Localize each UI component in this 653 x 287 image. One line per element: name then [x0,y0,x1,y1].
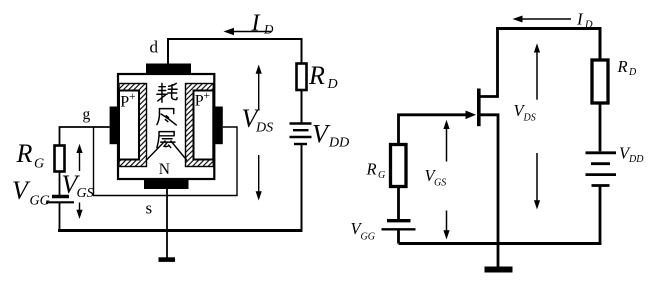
P+ label left [120,91,135,111]
svg-text:P: P [195,93,204,110]
text 尽 (depletion layer char 2) [157,109,176,125]
resistor R_D (left circuit) [297,61,338,92]
depletion boundary diagonal left [146,141,166,161]
svg-text:R: R [617,57,628,76]
svg-text:GG: GG [361,232,375,243]
JFET Q1 drain lead [479,29,498,97]
svg-text:D: D [584,20,593,31]
resistor R_D (right circuit) [592,57,637,103]
svg-text:I: I [251,11,261,37]
svg-text:R: R [308,61,325,90]
svg-text:+: + [204,90,211,102]
battery V_GG (left circuit) [12,176,74,232]
svg-text:GS: GS [434,178,446,189]
JFET Q1 gate lead with arrow [399,111,477,145]
svg-text:P: P [120,94,129,111]
wire: top wire to R_D (right circuit) [599,29,602,61]
battery V_DD (left circuit) [290,120,350,151]
svg-text:GG: GG [30,194,50,209]
text 层 (depletion layer char 3) [157,132,175,148]
svg-text:GS: GS [77,186,94,201]
ground (left circuit) [159,257,176,262]
label N [159,161,170,178]
battery V_GG (right circuit) [351,187,416,244]
JFET device body (left diagram) [118,74,214,179]
voltage arrow V_DS (left circuit) [242,65,274,201]
wire: R_D to V_DD [301,90,303,124]
wire: gate wire g (left circuit) [60,127,110,146]
svg-text:DS: DS [255,121,273,136]
depletion layer hatched ring right (around P+) [186,84,214,167]
text 耗 (depletion layer char 1) [157,83,177,102]
wire: right circuit top wire [496,27,602,30]
wire: V_DD to bottom wire (right circuit) [599,186,602,246]
svg-text:DD: DD [328,136,349,151]
label g [83,106,91,123]
current arrow I_D (left circuit) [224,11,275,37]
source electrode bar [144,179,189,189]
svg-text:DS: DS [523,113,536,124]
resistor R_G (left circuit) [16,139,65,195]
svg-text:G: G [378,170,385,181]
current arrow I_D (right circuit) [513,10,594,31]
JFET Q1 source lead and wire to ground [479,115,498,267]
drain electrode bar [146,64,191,75]
wire: right circuit bottom wire [399,242,602,245]
depletion layer hatched ring left (around P+) [119,84,147,167]
voltage arrow V_GS (left circuit) [62,144,94,219]
depletion boundary diagonal right [171,141,188,161]
battery V_DD (right circuit) [586,144,645,186]
svg-text:D: D [327,77,338,92]
svg-text:R: R [366,160,377,179]
svg-text:+: + [129,91,136,103]
P+ label right [195,90,210,110]
wire: left circuit drain top wire [168,39,302,64]
wire: gate loop connecting right gate to g node [94,127,238,196]
svg-text:DD: DD [628,154,644,165]
svg-text:g: g [83,106,91,123]
resistor R_G (right circuit) [366,145,407,187]
JFET Q1 channel bar [477,89,481,127]
svg-text:D: D [263,22,274,37]
svg-text:R: R [16,139,33,168]
gate electrode bar left [110,107,118,145]
wire: source to ground (left circuit) [166,189,168,258]
wire: V_DD to bottom wire [301,144,303,232]
label d [150,38,159,57]
svg-text:N: N [159,161,170,178]
wire: R_D to V_DD (right circuit) [599,103,602,151]
ground (right circuit) [485,267,513,273]
svg-text:G: G [34,157,44,172]
gate electrode bar right [215,107,223,145]
svg-text:s: s [146,199,153,218]
label s [146,199,153,218]
voltage arrow V_DS (right circuit) [514,43,541,209]
svg-text:D: D [628,67,637,78]
svg-text:d: d [150,38,159,57]
wire: left circuit bottom wire [58,229,303,232]
voltage arrow V_GS (right circuit) [425,120,450,240]
